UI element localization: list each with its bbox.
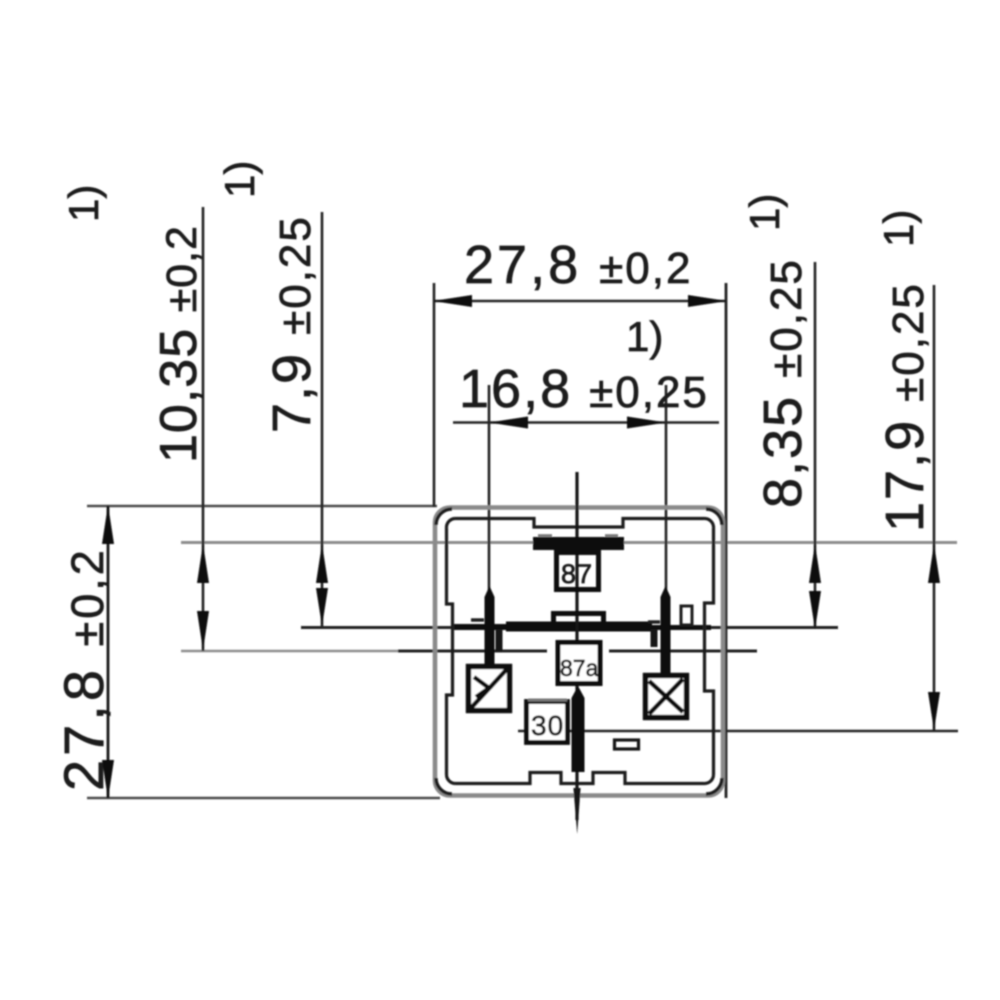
wire side-pin centerline (y=651) grey part bbox=[181, 650, 404, 653]
svg-text:1): 1) bbox=[741, 194, 788, 231]
svg-text:7,9 ±0,25: 7,9 ±0,25 bbox=[262, 215, 322, 433]
extension line x=815 bbox=[814, 262, 817, 629]
arrowhead down to y=651 bbox=[197, 611, 209, 650]
arrowhead down bbox=[102, 760, 114, 799]
left blade stub bbox=[496, 629, 503, 651]
svg-text:30: 30 bbox=[531, 710, 564, 741]
dimension 27,8 vertical left: line bbox=[107, 506, 110, 798]
svg-text:87a: 87a bbox=[560, 655, 599, 681]
arrowhead up to y=542 bbox=[928, 544, 940, 583]
right side small tab bbox=[681, 606, 692, 625]
dimension line y=422 bbox=[453, 421, 719, 424]
wire side-pin centerline (y=651) dark part bbox=[398, 650, 547, 653]
arrowhead up to y=542 bbox=[809, 544, 821, 583]
right extension x=726 bbox=[725, 283, 728, 798]
right blade stub bbox=[651, 629, 658, 647]
pin 86 left blade bbox=[485, 586, 495, 666]
svg-text:16,8 ±0,25: 16,8 ±0,25 bbox=[459, 359, 709, 419]
wire lower reference line (y=731) bbox=[518, 730, 958, 733]
pin 86 glyph marks bbox=[474, 677, 489, 697]
svg-text:1): 1) bbox=[60, 185, 107, 222]
pin 87 terminal box bbox=[557, 553, 599, 590]
wire bottom extension line of height dim (y=798) bbox=[87, 797, 440, 799]
pin 30 bottom blade bbox=[572, 686, 585, 772]
pin 87 top blade bar bbox=[533, 537, 624, 550]
pin 86 diagonal bbox=[471, 669, 507, 708]
arrowhead down to y=627 bbox=[316, 588, 328, 626]
top edge with center step bbox=[455, 519, 704, 528]
pin 85 diagonal 2 bbox=[649, 681, 683, 712]
arrowhead up to y=542 bbox=[197, 544, 209, 583]
svg-text:87: 87 bbox=[561, 559, 593, 589]
arrowhead left bbox=[489, 417, 528, 429]
svg-text:1): 1) bbox=[216, 161, 263, 198]
dimension line y=301 bbox=[434, 300, 726, 303]
pin 85 diagonal 1 bbox=[649, 679, 683, 714]
arrowhead left bbox=[433, 295, 472, 307]
dimension 16,8 horizontal: left extension x=489 bbox=[488, 385, 491, 600]
right extension x=666 bbox=[665, 385, 668, 600]
extension line x=322 bbox=[321, 212, 324, 627]
relay outer case outline bbox=[435, 508, 723, 796]
arrowhead down to y=629 bbox=[809, 591, 821, 629]
wire top extension line of height dim (y=506) bbox=[87, 505, 437, 507]
small index rectangle bbox=[615, 740, 639, 749]
wire thick pin-row overlay bbox=[452, 624, 652, 630]
right edge with notch bbox=[705, 528, 714, 775]
right blade side tick bbox=[648, 620, 660, 623]
center vertical axis line bbox=[575, 472, 578, 820]
center line tapered tail bbox=[573, 788, 580, 834]
arrowhead right bbox=[627, 417, 666, 429]
svg-text:8,35 ±0,25: 8,35 ±0,25 bbox=[753, 258, 813, 508]
pin 87a terminal box bbox=[558, 643, 600, 684]
wire horizontal reference line top (y=542) bbox=[181, 541, 957, 544]
bottom edge with tabs bbox=[455, 773, 704, 784]
relay outer corner accents bbox=[436, 509, 722, 794]
svg-text:1): 1) bbox=[875, 210, 922, 247]
svg-text:1): 1) bbox=[626, 313, 663, 360]
svg-text:27,8 ±0,2: 27,8 ±0,2 bbox=[52, 547, 115, 791]
extension line x=203 bbox=[202, 207, 205, 651]
pin 85 keyway box bbox=[646, 676, 687, 718]
pin 30 box grey top bbox=[528, 699, 567, 702]
arrowhead up bbox=[102, 505, 114, 544]
left blade side tick bbox=[471, 618, 484, 621]
svg-text:27,8 ±0,2: 27,8 ±0,2 bbox=[464, 235, 692, 295]
pin 85 right blade bbox=[661, 586, 671, 674]
center flange box bbox=[554, 614, 604, 626]
svg-text:10,35 ±0,2: 10,35 ±0,2 bbox=[150, 225, 208, 463]
arrowhead up to y=542 bbox=[316, 544, 328, 583]
left edge with notch bbox=[447, 528, 453, 775]
arrowhead right bbox=[688, 295, 727, 307]
pin 30 terminal box bbox=[527, 702, 568, 743]
blade bar end ticks bbox=[538, 534, 552, 537]
wire pin-row centerline (y=627) bbox=[301, 626, 838, 629]
relay inner outline bbox=[446, 518, 713, 783]
svg-text:17,9 ±0,25: 17,9 ±0,25 bbox=[875, 282, 935, 532]
extension line x=934 bbox=[933, 285, 936, 731]
dimension 27,8 horizontal top: left extension x=434 bbox=[433, 283, 436, 507]
pin 86 keyway box bbox=[469, 667, 510, 711]
arrowhead down to y=731 bbox=[928, 692, 940, 730]
inner corners bbox=[446, 519, 455, 529]
